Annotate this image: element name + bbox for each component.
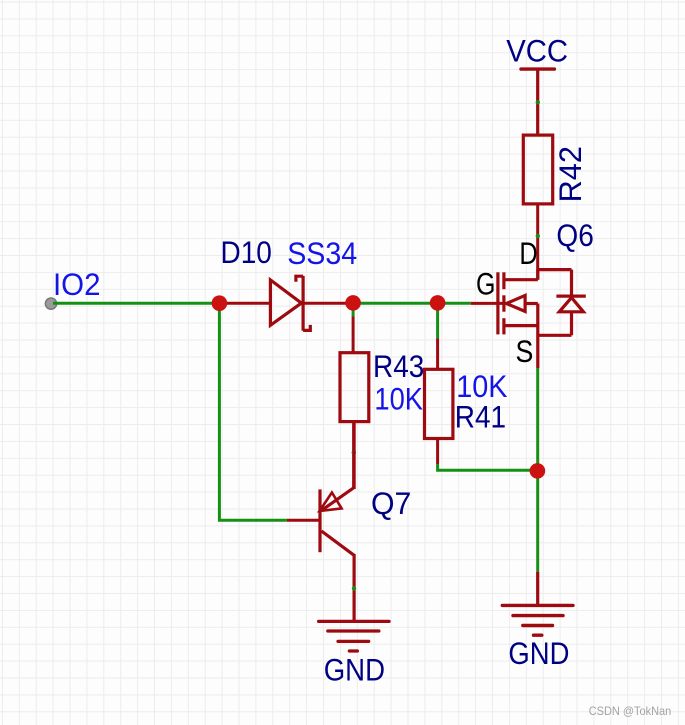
designator Q6 — [556, 217, 593, 253]
wire junction C down to R41 — [436, 303, 439, 338]
Q7 base bar — [318, 489, 321, 552]
diode D10 triangle — [270, 280, 301, 325]
Q6 channel dash top — [502, 272, 505, 289]
net label IO2 — [53, 266, 101, 302]
svg-text:G: G — [476, 265, 495, 301]
svg-text:R41: R41 — [455, 399, 506, 435]
Q6 gate pin — [471, 302, 503, 305]
pin name D — [519, 235, 537, 271]
wire junction B down to R43 — [352, 303, 355, 316]
designator R43 — [373, 348, 424, 384]
watermark — [589, 704, 672, 718]
svg-text:GND: GND — [508, 635, 569, 671]
Q6 channel dash middle — [502, 295, 505, 311]
Q6 body diode upper lead — [570, 270, 573, 295]
pin name G — [476, 265, 495, 301]
svg-text:D: D — [519, 235, 537, 271]
designator R41 — [455, 399, 506, 435]
resistor R43 — [340, 353, 369, 422]
junction B — [345, 295, 361, 311]
value 10K of R41 — [456, 368, 507, 404]
wire IO2 to junction A — [53, 302, 219, 305]
Q6 gate bar — [496, 272, 499, 334]
resistor R43 top pin — [352, 317, 355, 353]
node dot on drain wire — [536, 234, 540, 238]
wire junction A down to Q7 base — [219, 303, 287, 520]
Q6 channel dash bottom — [502, 318, 505, 334]
resistor R41 — [425, 369, 453, 438]
ground symbol right — [502, 605, 573, 635]
designator D10 — [221, 234, 272, 270]
GND label left — [324, 651, 385, 687]
svg-text:IO2: IO2 — [53, 266, 101, 302]
wire junction C to Q6 gate — [438, 302, 471, 305]
Q6 body diode lower lead — [570, 312, 573, 336]
resistor R43 bottom pin — [352, 422, 355, 489]
node dot on R43 bottom pin — [352, 450, 356, 454]
Q7 emitter diagonal — [321, 488, 354, 511]
Q6 source horizontal — [504, 324, 538, 327]
svg-text:S: S — [516, 333, 534, 369]
wire junction D down to ground — [536, 471, 539, 572]
ground symbol right stem — [536, 572, 539, 606]
svg-text:CSDN @TokNan: CSDN @TokNan — [589, 704, 672, 718]
Q6 source vertical lead — [536, 304, 539, 369]
Q6 top horizontal to body diode — [538, 268, 572, 271]
svg-text:Q6: Q6 — [556, 217, 593, 253]
value SS34 — [287, 235, 357, 271]
resistor R41 bottom pin — [436, 439, 439, 465]
resistor R42 — [523, 135, 552, 204]
diode D10 cathode pin — [304, 302, 352, 305]
IO2 port pin dot — [45, 298, 56, 309]
power port VCC — [521, 69, 554, 135]
junction C — [430, 295, 446, 311]
Q6 body arrow — [506, 295, 525, 311]
transistor Q6 (P-MOSFET) — [471, 270, 586, 368]
Q7 emitter lead up — [353, 422, 356, 489]
Q7 emitter arrow — [320, 493, 342, 512]
Q6 bottom horizontal — [538, 334, 572, 337]
svg-text:R43: R43 — [373, 348, 424, 384]
wire R41 bottom to junction D — [438, 464, 536, 470]
value 10K of R43 — [374, 380, 423, 416]
Q6 body horizontal — [525, 302, 538, 305]
svg-text:Q7: Q7 — [371, 485, 411, 521]
GND label right — [508, 635, 569, 671]
Q6 drain horizontal — [504, 278, 538, 281]
svg-text:SS34: SS34 — [287, 235, 357, 271]
wire R42 bottom to Q6 drain — [536, 204, 539, 280]
Q6 body diode triangle — [559, 298, 583, 312]
diode D10 cathode bar with schottky hooks — [296, 276, 310, 331]
svg-text:R42: R42 — [552, 146, 588, 202]
junction A — [212, 295, 228, 311]
node dot on Q7 collector lead — [352, 586, 356, 590]
designator R42 (rotated) — [552, 146, 588, 202]
VCC label — [506, 32, 568, 68]
resistor R41 top pin — [436, 338, 439, 369]
svg-text:D10: D10 — [221, 234, 272, 270]
junction D — [530, 463, 546, 479]
pin name S — [516, 333, 534, 369]
wire Q6 source down to junction D — [536, 368, 539, 471]
node dot on VCC stem — [536, 100, 540, 104]
wire junction B to junction C — [353, 302, 438, 305]
svg-text:GND: GND — [324, 651, 385, 687]
Q6 body diode cathode bar — [556, 295, 585, 298]
designator Q7 — [371, 485, 411, 521]
Q7 base pin — [287, 519, 319, 522]
Q7 collector diagonal — [321, 531, 354, 555]
Q7 collector lead down — [353, 554, 356, 621]
Q6 drain vertical — [536, 270, 539, 280]
svg-text:10K: 10K — [374, 380, 423, 416]
diode D10 anode pin — [219, 302, 270, 305]
ground symbol left — [319, 621, 390, 651]
transistor Q7 (PNP) — [287, 422, 354, 621]
svg-text:VCC: VCC — [506, 32, 568, 68]
